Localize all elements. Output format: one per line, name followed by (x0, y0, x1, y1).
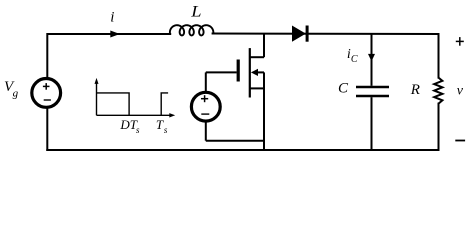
transistor Q1 body line (255, 71, 264, 73)
inductor L (170, 25, 214, 35)
wire gate lead (206, 71, 237, 73)
transistor Q1 gate bar (237, 60, 240, 82)
wire capacitor bottom lead (371, 97, 373, 150)
plus sign output (456, 37, 464, 46)
wire capacitor top lead (371, 34, 373, 86)
diode D1 cathode bar (306, 26, 309, 42)
wire right branch into resistor (438, 34, 440, 78)
wire source lead to bottom rail (263, 72, 265, 150)
wire gate lead down to pulse source (205, 72, 207, 107)
capacitor current arrow iC (368, 54, 375, 62)
gate source minus sign (201, 113, 209, 115)
svg-text:C: C (351, 54, 358, 65)
Vg plus sign (43, 85, 50, 87)
wire from Vg up and along top rail to inductor (47, 34, 170, 150)
transistor Q1 source tap (250, 87, 264, 89)
svg-text:T: T (156, 117, 164, 132)
transistor Q1 channel bar (249, 48, 251, 97)
wire resistor to bottom rail (438, 104, 440, 150)
svg-text:i: i (110, 9, 114, 25)
svg-text:s: s (136, 125, 140, 135)
wire drain lead from top rail (263, 34, 265, 57)
transistor Q1 drain tap (250, 56, 264, 58)
gate drive pulse source circle (191, 92, 220, 121)
wire top rail from inductor to output corner (213, 33, 439, 36)
wire pulse source return to Q1 source (206, 140, 264, 142)
svg-text:s: s (164, 125, 168, 135)
voltage source Vg circle (32, 79, 61, 108)
svg-text:g: g (13, 88, 19, 100)
svg-text:v: v (457, 84, 464, 99)
gate source plus sign (201, 98, 208, 100)
minus sign output (455, 140, 465, 142)
svg-text:R: R (410, 82, 420, 98)
resistor R (434, 78, 442, 104)
svg-text:C: C (338, 80, 349, 96)
gate waveform sketch (97, 82, 171, 115)
current arrow i (110, 31, 120, 38)
diode D1 anode triangle (292, 26, 306, 42)
waveform axis arrowheads (95, 78, 99, 84)
Vg minus sign (44, 99, 51, 101)
svg-text:L: L (190, 4, 202, 21)
wire pulse source bottom lead (205, 107, 207, 141)
transistor Q1 body arrow (251, 69, 258, 76)
wire bottom rail (47, 149, 438, 151)
capacitor C plates (356, 86, 389, 88)
